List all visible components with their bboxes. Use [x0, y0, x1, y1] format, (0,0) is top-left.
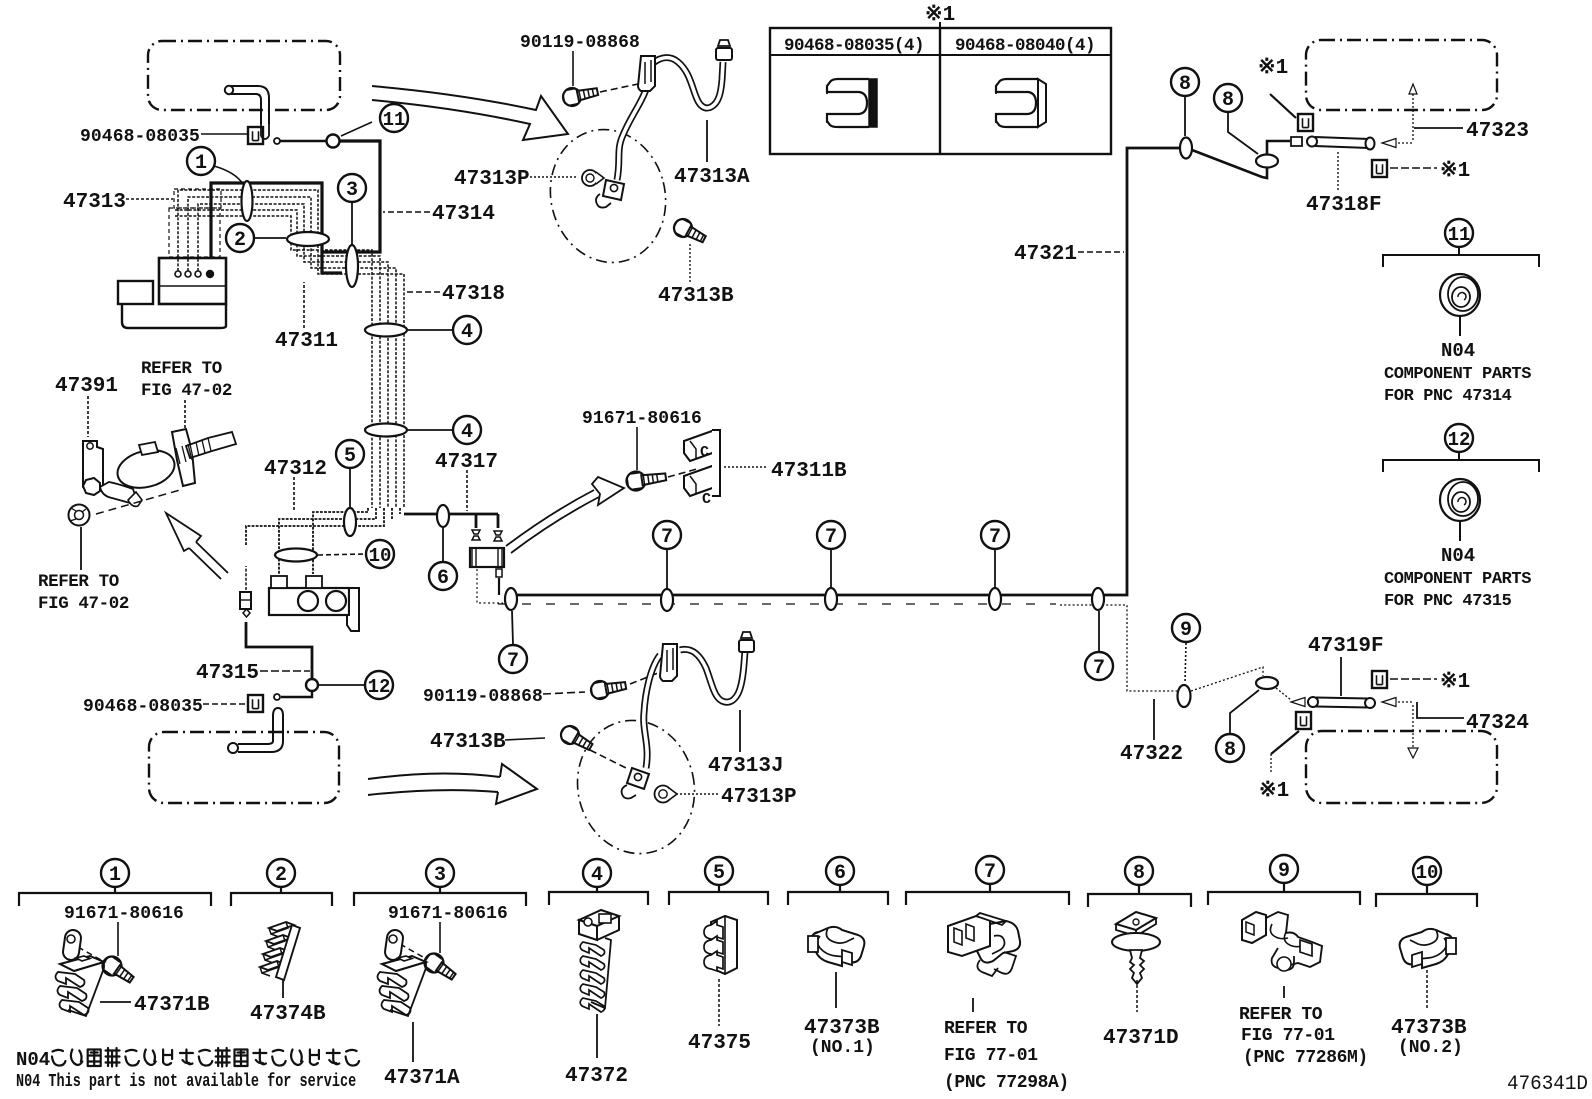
clamp oval 4a [365, 324, 407, 337]
svg-text:47313P: 47313P [454, 168, 530, 191]
svg-text:8: 8 [1133, 862, 1145, 885]
clamp oval 3 [346, 245, 358, 287]
svg-text:8: 8 [1222, 89, 1234, 112]
clip ※1 (top right) [1298, 114, 1313, 131]
svg-text:5: 5 [713, 862, 725, 885]
circled 7a [499, 645, 527, 673]
nut (refer fig 47-02) [69, 505, 90, 526]
svg-text:(NO.1): (NO.1) [810, 1038, 875, 1058]
svg-text:47313B: 47313B [658, 285, 734, 308]
svg-text:10: 10 [369, 545, 392, 567]
svg-text:12: 12 [368, 676, 391, 698]
clamp oval 7d [989, 588, 1001, 610]
U-clip icon right cell [996, 79, 1046, 127]
bolt 91671-80616 [625, 467, 667, 491]
svg-text:47391: 47391 [55, 375, 118, 398]
bolt 90119-08868 (bottom) [590, 677, 628, 701]
circled 9 [1172, 614, 1200, 642]
svg-text:8: 8 [1179, 73, 1191, 96]
svg-text:47321: 47321 [1014, 243, 1077, 266]
svg-text:(NO.2): (NO.2) [1398, 1038, 1463, 1058]
bolt 47313B (top) [671, 216, 709, 247]
svg-text:47373B: 47373B [1391, 1017, 1467, 1040]
svg-text:7: 7 [989, 526, 1001, 549]
svg-text:6: 6 [437, 567, 449, 590]
svg-text:4: 4 [591, 864, 603, 887]
tube 47312 branch [246, 508, 400, 574]
svg-text:476341D: 476341D [1507, 1073, 1588, 1096]
circled 4a [453, 316, 481, 344]
clamp oval 5 [344, 508, 356, 536]
svg-text:47315: 47315 [196, 662, 259, 685]
hose clamp bracket (rear) [660, 644, 677, 681]
svg-text:5: 5 [344, 445, 356, 468]
bolt 47313B (bottom) [558, 723, 596, 755]
svg-text:47371D: 47371D [1103, 1027, 1179, 1050]
clip 90468-08035 (top) [248, 127, 263, 144]
svg-text:47312: 47312 [264, 458, 327, 481]
circled 7e [1085, 652, 1113, 680]
svg-text:COMPONENT PARTS: COMPONENT PARTS [1384, 570, 1531, 589]
svg-text:REFER TO: REFER TO [944, 1019, 1028, 1039]
rivet 47371D icon [1112, 912, 1160, 984]
svg-text:47313A: 47313A [674, 166, 750, 189]
svg-text:C: C [702, 491, 711, 508]
svg-text:7: 7 [825, 526, 837, 549]
circled 1 [187, 147, 215, 175]
svg-text:90468-08035(4): 90468-08035(4) [784, 36, 924, 56]
svg-text:90468-08035: 90468-08035 [80, 127, 200, 147]
svg-text:12: 12 [1448, 429, 1471, 451]
clip ※1 (mid right) [1372, 160, 1387, 177]
svg-text:※1: ※1 [1258, 56, 1288, 80]
junction circle 12 [306, 679, 318, 691]
svg-text:REFER TO: REFER TO [1239, 1005, 1323, 1025]
svg-text:N04: N04 [1441, 545, 1475, 567]
svg-text:(PNC 77298A): (PNC 77298A) [944, 1073, 1069, 1093]
legend item 7 [976, 856, 1004, 884]
grommet N04 (12) [1440, 479, 1480, 521]
tube 47322 dotted route [1060, 605, 1177, 691]
clamp oval 8a [1180, 138, 1192, 159]
svg-text:FOR PNC 47315: FOR PNC 47315 [1384, 592, 1512, 611]
clamp 47372 icon [579, 910, 619, 1012]
svg-text:1: 1 [109, 864, 121, 887]
legend item 1 [101, 859, 129, 887]
svg-text:※1: ※1 [1259, 779, 1289, 803]
svg-text:2: 2 [275, 864, 287, 887]
47323 dotted leader with arrows [1412, 86, 1414, 140]
bolt 47313P (bottom) [655, 786, 678, 803]
svg-text:47313B: 47313B [430, 731, 506, 754]
end fitting of 47313J [739, 632, 754, 652]
clamp 47311B icon [684, 430, 720, 496]
circled 8a [1171, 68, 1199, 96]
legend item 3 [426, 859, 454, 887]
circled 2 [226, 224, 254, 252]
svg-text:※1: ※1 [1440, 159, 1470, 183]
bolt 90119-08868 (top) [561, 83, 599, 108]
circled 4b [453, 416, 481, 444]
circled 11 [380, 104, 408, 132]
svg-text:FIG 47-02: FIG 47-02 [141, 381, 232, 401]
ABS terminals [175, 271, 213, 278]
svg-text:2: 2 [234, 229, 246, 252]
svg-text:90468-08035: 90468-08035 [83, 697, 203, 717]
banjo fitting (rear) [622, 768, 649, 799]
brake master cylinder w/ reservoir [240, 576, 359, 631]
clamp 47373B icon (no.1) [808, 927, 864, 966]
main rear tube 47321 [507, 148, 1180, 595]
svg-text:9: 9 [1278, 860, 1290, 883]
dotted drain to main line [477, 569, 503, 603]
svg-text:7: 7 [1093, 657, 1105, 680]
hose clamp bracket (top) [638, 56, 655, 91]
svg-text:47318F: 47318F [1306, 194, 1382, 217]
svg-text:47375: 47375 [688, 1032, 751, 1055]
clamp oval 2 [287, 232, 329, 246]
flexible hose 47313J [644, 649, 745, 768]
clamp oval 7c [825, 588, 837, 610]
svg-text:FIG 77-01: FIG 77-01 [1241, 1026, 1335, 1046]
svg-text:N04: N04 [16, 1049, 50, 1071]
svg-text:3: 3 [434, 864, 446, 887]
banjo fitting (front) [596, 180, 624, 208]
svg-text:47374B: 47374B [250, 1003, 326, 1026]
bolt 47313P (top) [582, 170, 604, 186]
circled 3 [338, 174, 366, 202]
svg-text:4: 4 [461, 421, 473, 444]
svg-text:N04: N04 [1441, 340, 1475, 362]
clip 90468-08035 (bottom) [248, 695, 263, 712]
svg-text:FOR PNC 47314: FOR PNC 47314 [1384, 387, 1512, 406]
clamp oval 8d [1256, 677, 1278, 689]
component parts group 11 [1445, 219, 1473, 247]
svg-text:90119-08868: 90119-08868 [423, 687, 543, 707]
reservoir outline box top-left (dash-dot) [148, 41, 340, 110]
tube 47317 junction line [404, 514, 498, 528]
legend item 8 [1125, 857, 1153, 885]
svg-text:N04 This part is not available: N04 This part is not available for servi… [16, 1071, 356, 1092]
svg-text:1: 1 [195, 152, 207, 175]
component parts group 12 [1445, 424, 1473, 452]
grommet N04 (11) [1440, 274, 1480, 316]
clamp 47375 icon [704, 916, 737, 974]
svg-text:11: 11 [1448, 224, 1471, 246]
clamp oval 9 (on 47322) [1178, 685, 1191, 707]
svg-text:47324: 47324 [1466, 712, 1529, 735]
tube bundle 47313/47311/47318 [175, 190, 404, 508]
svg-text:4: 4 [461, 321, 473, 344]
arrow up-left to master cylinder [189, 542, 228, 579]
tube 47314 (thick front tube) [211, 141, 380, 273]
arrow to 91671 bolt [506, 490, 599, 553]
bolt 91671-80616 item3 [421, 950, 459, 985]
legend item 2 [267, 859, 295, 887]
clamp oval 6 [437, 505, 449, 527]
body outline box top-right (dash-dot) [1306, 40, 1497, 110]
dash-dot inspection ellipse (rear) [564, 709, 707, 866]
svg-text:47372: 47372 [565, 1065, 628, 1088]
legend item 6 [826, 857, 854, 885]
legend item 5 [705, 857, 733, 885]
U-clip icon left cell [827, 79, 877, 127]
svg-text:47313: 47313 [63, 191, 126, 214]
body outline box bottom-right (dash-dot) [1306, 731, 1497, 803]
svg-text:47322: 47322 [1120, 743, 1183, 766]
circled 8b [1214, 84, 1242, 112]
reservoir outline box bottom-left (dash-dot) [149, 732, 339, 803]
svg-text:91671-80616: 91671-80616 [388, 904, 508, 924]
big arrow bottom (to rear hose detail) [368, 773, 500, 795]
svg-text:10: 10 [1416, 862, 1439, 884]
brake actuator (ABS) block [118, 258, 226, 328]
node: tube nipple to front hose [274, 138, 280, 144]
clamp oval 1 [242, 181, 253, 221]
legend item 9 [1270, 855, 1298, 883]
clamp oval 7b [661, 589, 673, 611]
circled 7c [817, 521, 845, 549]
hose 47319F [1308, 697, 1375, 708]
circled 11 leader [341, 122, 372, 136]
dashed outline boxes around 47313 tubes [174, 189, 221, 208]
svg-text:47311B: 47311B [771, 460, 847, 483]
clamp oval 8b [1256, 155, 1278, 168]
circled 6 [429, 562, 457, 590]
circled 12 [365, 671, 393, 699]
svg-text:47319F: 47319F [1308, 635, 1384, 658]
circled 10 [366, 540, 394, 568]
svg-text:REFER TO: REFER TO [141, 359, 222, 379]
second tube dotted (47322 along) [498, 603, 1056, 605]
proportioning valve [470, 548, 504, 567]
svg-text:7: 7 [661, 526, 673, 549]
svg-text:47313P: 47313P [721, 786, 797, 809]
top fitting of 47313A [716, 40, 732, 60]
svg-text:FIG 47-02: FIG 47-02 [38, 594, 129, 614]
svg-text:7: 7 [984, 861, 996, 884]
flexible hose 47313A [617, 58, 723, 180]
svg-text:47314: 47314 [432, 203, 495, 226]
circled 7b [653, 521, 681, 549]
clip ※1 (47319F bottom-left) [1296, 712, 1311, 729]
svg-text:3: 3 [346, 179, 358, 202]
svg-text:9: 9 [1180, 619, 1192, 642]
circled 7d [981, 521, 1009, 549]
svg-text:REFER TO: REFER TO [38, 572, 119, 592]
clamp oval 7a [505, 588, 517, 610]
clamp oval 7e [1092, 588, 1104, 610]
legend item 10 [1413, 857, 1441, 885]
svg-text:47323: 47323 [1466, 120, 1529, 143]
svg-text:47318: 47318 [442, 283, 505, 306]
junction node circle [327, 135, 340, 148]
svg-text:91671-80616: 91671-80616 [582, 409, 702, 429]
clip ※1 (47319F top) [1372, 671, 1387, 688]
svg-text:FIG 77-01: FIG 77-01 [944, 1046, 1038, 1066]
svg-text:7: 7 [507, 650, 519, 673]
svg-text:47373B: 47373B [804, 1017, 880, 1040]
pipe stub into bottom-left box [228, 708, 283, 753]
dashed line through assembly [96, 490, 180, 514]
circled 8d [1216, 734, 1244, 762]
svg-text:91671-80616: 91671-80616 [64, 904, 184, 924]
clamp 47373B icon (no.2) [1400, 929, 1456, 968]
svg-text:6: 6 [834, 862, 846, 885]
legend item 4 [583, 859, 611, 887]
clamp 47374B icon [260, 922, 300, 980]
hose 47318F [1291, 137, 1375, 150]
svg-text:90468-08040(4): 90468-08040(4) [955, 36, 1095, 56]
clamp 47371B icon [56, 929, 105, 1016]
clamp oval 10 [275, 549, 317, 562]
clamp icon (refer fig 77-01 pnc 77298A) [948, 913, 1020, 976]
bolt 91671-80616 item1 [99, 953, 137, 988]
svg-text:47313J: 47313J [708, 755, 784, 778]
clamp oval 4b [365, 424, 407, 437]
svg-text:COMPONENT PARTS: COMPONENT PARTS [1384, 365, 1531, 384]
svg-text:(PNC 77286M): (PNC 77286M) [1243, 1048, 1368, 1068]
clamp 47371A icon [378, 929, 427, 1016]
pipe stub into top-left box [225, 86, 269, 139]
japanese note (drawn) [52, 1050, 66, 1066]
dotted diagonal + arrow to hose 47319F [1276, 688, 1291, 700]
nipple + stub below junction [281, 691, 312, 697]
svg-text:8: 8 [1224, 739, 1236, 762]
svg-text:47371B: 47371B [134, 994, 210, 1017]
tube 47315 [246, 622, 312, 679]
clamp icon (refer fig 77-01 pnc 77286M) [1242, 912, 1322, 971]
svg-text:47371A: 47371A [384, 1067, 460, 1090]
circled 5 [336, 440, 364, 468]
footnote english line [16, 1071, 356, 1092]
svg-text:C: C [700, 444, 709, 461]
big arrow top (to front hose detail) [372, 86, 568, 140]
clutch master cylinder assembly [83, 429, 236, 506]
flare nuts at valve [472, 530, 502, 541]
svg-text:※1: ※1 [1440, 670, 1470, 694]
dash-dot inspection ellipse (front) [536, 117, 679, 275]
svg-text:47311: 47311 [275, 330, 338, 353]
svg-text:90119-08868: 90119-08868 [520, 33, 640, 53]
svg-text:11: 11 [383, 109, 406, 131]
